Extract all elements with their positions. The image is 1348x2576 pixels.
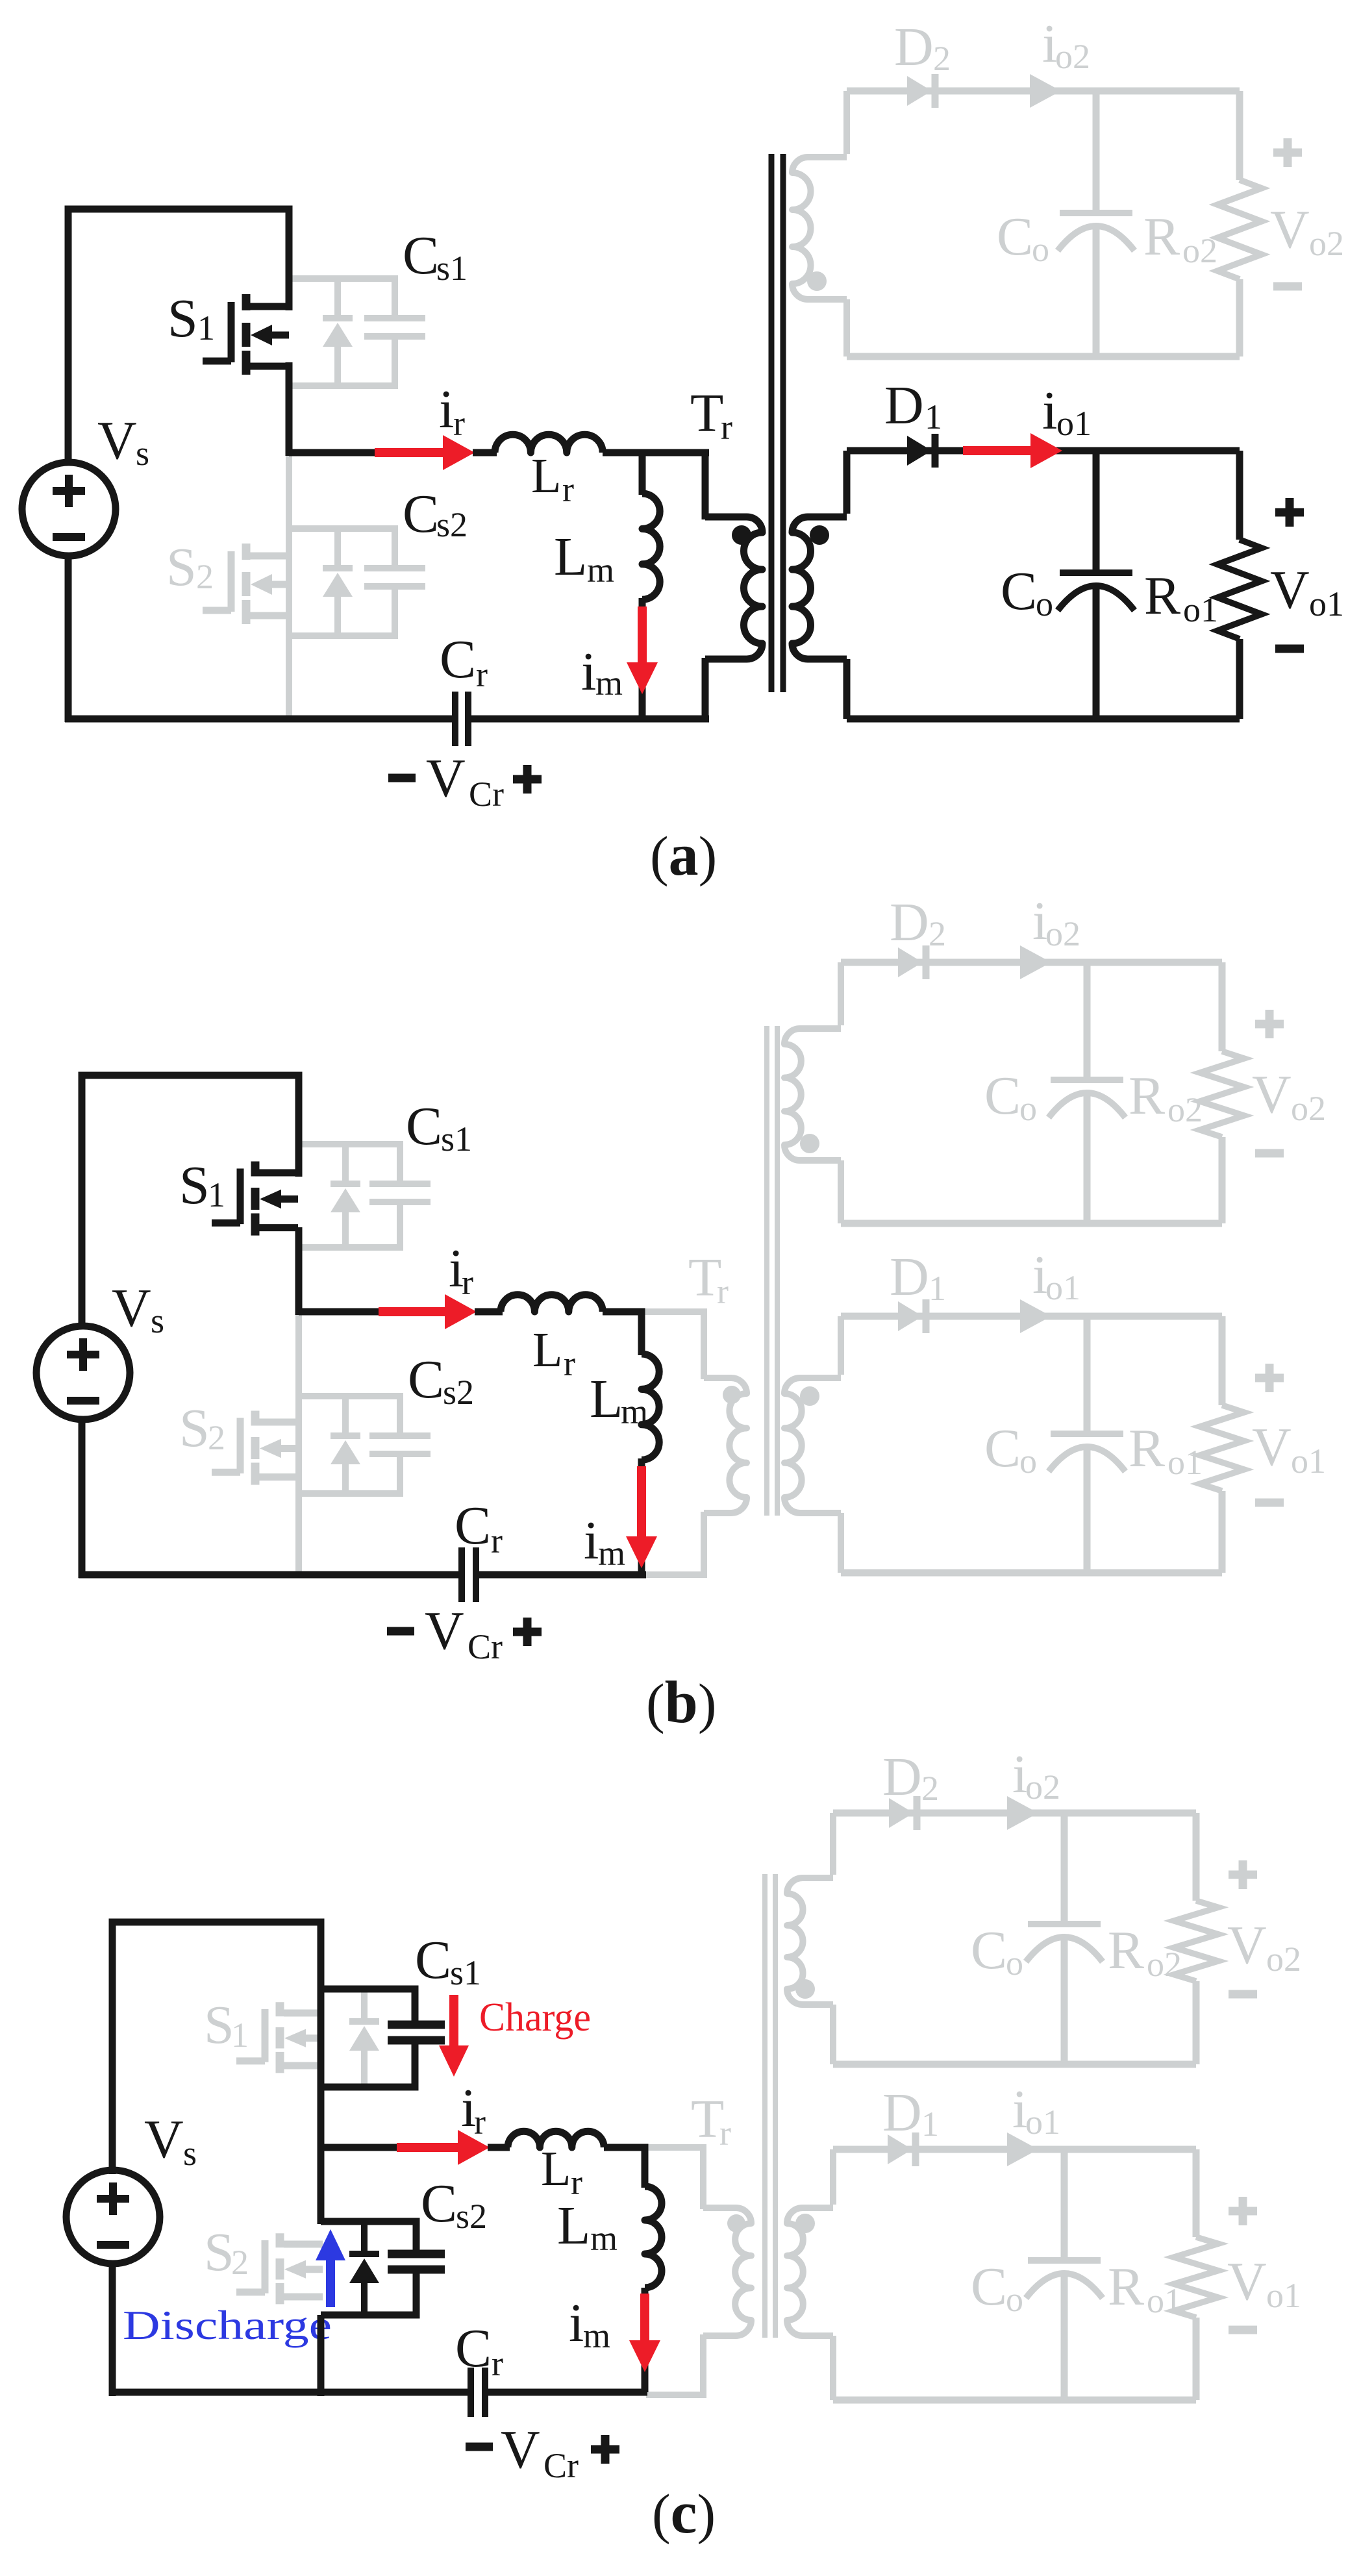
svg-text:o2: o2 — [1167, 1090, 1203, 1129]
svg-text:S: S — [179, 1155, 210, 1216]
snubber block wires — [299, 1141, 400, 1147]
svg-text:C: C — [406, 1096, 442, 1157]
svg-text:2: 2 — [208, 1418, 225, 1457]
svg-text:i: i — [1042, 381, 1057, 441]
svg-text:i: i — [581, 642, 596, 702]
svg-text:o1: o1 — [1266, 2276, 1301, 2315]
svg-text:i: i — [569, 2293, 584, 2353]
svg-text:V: V — [97, 410, 137, 471]
wire Lr to primary — [603, 449, 709, 456]
wire primary top lead — [702, 449, 709, 519]
svg-text:r: r — [453, 404, 465, 443]
svg-text:Discharge: Discharge — [123, 2302, 332, 2348]
output capacitor Co — [1093, 91, 1100, 213]
svg-text:m: m — [590, 2219, 618, 2258]
diode — [888, 2134, 912, 2164]
svg-text:o1: o1 — [1045, 1268, 1080, 1307]
magnetizing current arrow im — [637, 1466, 646, 1538]
svg-text:m: m — [598, 1534, 625, 1573]
polarity marks — [1229, 2207, 1257, 2216]
output circuit wires — [847, 447, 1240, 455]
snubber block wires — [289, 275, 395, 282]
svg-text:(a): (a) — [650, 821, 717, 888]
svg-text:V: V — [1227, 2251, 1267, 2312]
snubber capacitor — [369, 1181, 431, 1187]
load resistor Ro — [1174, 1901, 1218, 1981]
svg-text:s2: s2 — [456, 2197, 487, 2236]
wire S1 source leg — [286, 362, 293, 456]
svg-text:1: 1 — [925, 397, 942, 436]
body diode S1 (inactive) — [361, 1989, 368, 2021]
winding dot — [795, 1979, 815, 1999]
diode — [907, 436, 932, 466]
svg-text:L: L — [532, 1323, 562, 1377]
svg-text:r: r — [491, 1521, 503, 1560]
magnetizing inductor Lm — [642, 494, 660, 599]
wire Vs to rail — [109, 2264, 116, 2396]
svg-text:o2: o2 — [1291, 1089, 1326, 1128]
body diode — [342, 1396, 349, 1436]
svg-text:Cr: Cr — [543, 2446, 579, 2485]
svg-text:D: D — [894, 17, 934, 77]
svg-text:V: V — [501, 2420, 540, 2480]
label VCr — [387, 1627, 414, 1636]
resonant capacitor Cr — [452, 692, 458, 746]
load resistor Ro — [1217, 180, 1262, 279]
polarity marks — [1255, 1374, 1284, 1382]
discharge arrow — [326, 2259, 335, 2307]
svg-text:o2: o2 — [1055, 37, 1090, 76]
transformer primary winding — [705, 517, 762, 659]
secondary winding — [843, 451, 851, 514]
label VCr — [388, 774, 416, 782]
svg-text:S: S — [168, 288, 198, 349]
voltage source Vs — [22, 462, 116, 556]
resonant capacitor Cr — [458, 1547, 465, 1602]
resonant current arrow ir — [397, 2143, 459, 2152]
output capacitor Co — [1061, 2149, 1068, 2260]
svg-text:o2: o2 — [1182, 231, 1217, 270]
output current arrow io — [1020, 1299, 1051, 1333]
svg-text:C: C — [997, 206, 1033, 267]
svg-text:s: s — [151, 1301, 164, 1340]
diode — [907, 76, 932, 106]
switch S1 — [251, 1162, 260, 1177]
wire bottom rail left — [79, 1571, 458, 1579]
polarity marks — [1273, 149, 1302, 157]
resonant current arrow ir — [375, 448, 444, 457]
voltage source Vs — [36, 1326, 130, 1419]
svg-text:o: o — [1006, 1944, 1023, 1982]
svg-text:Cr: Cr — [469, 775, 504, 814]
svg-text:s2: s2 — [436, 505, 468, 544]
svg-text:L: L — [557, 2195, 590, 2256]
svg-text:o1: o1 — [1147, 2281, 1182, 2320]
output circuit wires — [841, 959, 1222, 966]
svg-text:o2: o2 — [1147, 1945, 1182, 1984]
svg-text:C: C — [455, 2318, 492, 2379]
svg-text:o1: o1 — [1291, 1442, 1326, 1481]
transformer primary winding (inactive) — [703, 2208, 751, 2336]
wire Vs to rail — [79, 1419, 86, 1578]
wire to Lr — [321, 2144, 402, 2151]
svg-text:R: R — [1108, 1920, 1144, 1981]
svg-text:r: r — [474, 2103, 486, 2142]
wire input loop top — [68, 209, 289, 461]
output circuit wires — [847, 88, 1240, 95]
wire S2 leg (inactive) — [286, 453, 292, 719]
svg-text:C: C — [971, 2257, 1007, 2317]
svg-text:R: R — [1129, 1066, 1165, 1126]
svg-text:T: T — [690, 383, 723, 444]
svg-text:D: D — [882, 2082, 922, 2143]
output current arrow io — [1030, 74, 1061, 108]
wire input loop top — [82, 1075, 299, 1329]
svg-text:m: m — [621, 1392, 648, 1431]
svg-text:(b): (b) — [646, 1669, 716, 1735]
svg-text:(c): (c) — [652, 2479, 716, 2545]
secondary winding — [838, 1316, 844, 1375]
svg-text:o1: o1 — [1309, 584, 1344, 623]
resonant inductor Lr — [501, 1295, 603, 1312]
load resistor Ro — [1200, 1051, 1244, 1137]
snubber capacitor — [364, 315, 425, 321]
voltage source Vs — [66, 2170, 160, 2264]
svg-text:C: C — [408, 1349, 444, 1410]
polarity marks — [1229, 1871, 1257, 1879]
transformer core (inactive) — [762, 1874, 768, 2338]
svg-text:S: S — [179, 1398, 210, 1458]
output capacitor Co — [1084, 1316, 1091, 1434]
wire primary top lead (inactive) — [643, 1312, 704, 1379]
svg-text:1: 1 — [929, 1269, 946, 1308]
svg-text:R: R — [1143, 206, 1180, 267]
svg-text:r: r — [721, 408, 732, 447]
snubber block wires — [299, 1393, 400, 1399]
output current arrow io — [1007, 1796, 1038, 1830]
output circuit wires — [833, 1810, 1196, 1817]
wire Lm to rail — [642, 2288, 649, 2392]
wire bottom rail right — [488, 2389, 647, 2396]
svg-text:1: 1 — [197, 308, 215, 347]
switch S1 (inactive) — [276, 2002, 284, 2016]
wire arrow to Lr — [473, 449, 497, 456]
svg-text:L: L — [531, 449, 561, 503]
svg-text:V: V — [425, 1601, 464, 1661]
magnetizing current arrow im — [638, 606, 647, 664]
magnetizing current arrow im — [640, 2294, 649, 2342]
svg-text:C: C — [403, 484, 439, 544]
snubber Cs2 block (active) — [321, 2221, 416, 2254]
wire S1 source to Lr — [299, 1308, 384, 1316]
wire primary top lead (inactive) — [645, 2147, 703, 2209]
svg-text:o2: o2 — [1266, 1940, 1301, 1979]
svg-text:i: i — [439, 379, 454, 440]
svg-text:r: r — [564, 1344, 575, 1383]
wire junction to Cs2 — [318, 2147, 325, 2224]
load resistor Ro — [1200, 1405, 1244, 1491]
svg-text:i: i — [584, 1510, 599, 1571]
svg-text:S: S — [204, 1995, 234, 2055]
svg-text:r: r — [719, 2114, 731, 2153]
svg-text:s1: s1 — [436, 249, 468, 288]
svg-text:1: 1 — [208, 1175, 225, 1214]
wire arrow to Lr — [475, 1308, 503, 1316]
svg-text:o1: o1 — [1025, 2103, 1060, 2142]
svg-text:V: V — [1270, 560, 1310, 620]
svg-text:o1: o1 — [1183, 590, 1218, 629]
svg-text:o2: o2 — [1045, 914, 1080, 953]
svg-text:L: L — [554, 527, 587, 587]
transformer core (inactive) — [764, 1026, 769, 1516]
snubber block wires — [289, 525, 395, 532]
svg-text:C: C — [984, 1418, 1021, 1479]
svg-text:C: C — [455, 1495, 491, 1556]
output capacitor Co — [1061, 1813, 1068, 1924]
primary winding dot — [732, 525, 751, 545]
svg-text:V: V — [1252, 1417, 1292, 1477]
svg-text:V: V — [112, 1278, 151, 1338]
diode — [898, 1301, 923, 1331]
svg-text:C: C — [440, 629, 476, 690]
svg-text:R: R — [1108, 2257, 1144, 2317]
wire bottom rail right — [479, 1571, 646, 1579]
svg-text:V: V — [1227, 1915, 1267, 1975]
switch S2 (inactive) — [242, 544, 251, 560]
svg-text:o2: o2 — [1025, 1768, 1060, 1807]
wire S1 leg middle — [318, 1989, 325, 2151]
wire S2 leg (inactive) — [295, 1312, 302, 1575]
output capacitor Co — [1093, 451, 1100, 573]
polarity marks — [1255, 1020, 1284, 1029]
secondary winding — [830, 2149, 836, 2205]
svg-text:r: r — [492, 2344, 503, 2383]
svg-text:C: C — [421, 2173, 457, 2234]
switch S2 (inactive) — [276, 2233, 284, 2247]
svg-text:o2: o2 — [1309, 224, 1344, 263]
svg-text:r: r — [717, 1272, 729, 1311]
svg-text:s1: s1 — [441, 1119, 472, 1158]
svg-text:s: s — [183, 2134, 197, 2173]
svg-text:C: C — [971, 1920, 1007, 1981]
output current arrow io — [1020, 945, 1051, 979]
svg-text:C: C — [403, 225, 439, 286]
snubber capacitor — [369, 1432, 431, 1439]
svg-text:m: m — [595, 664, 623, 703]
magnetizing inductor Lm — [642, 1354, 659, 1460]
winding dot — [800, 1134, 819, 1153]
wire Lr to corner — [604, 2147, 645, 2188]
snubber Cs1 block (active) — [321, 1989, 415, 2025]
wire Lr to corner — [603, 1312, 642, 1355]
output circuit wires — [841, 1313, 1222, 1320]
svg-text:S: S — [166, 537, 197, 597]
svg-text:Charge: Charge — [479, 1995, 591, 2040]
body diode S2 (active) — [361, 2221, 368, 2254]
primary winding dot (inactive) — [723, 1386, 741, 1404]
label VCr — [466, 2443, 493, 2451]
svg-text:S: S — [204, 2222, 234, 2282]
svg-text:1: 1 — [921, 2105, 939, 2144]
svg-text:V: V — [1270, 199, 1310, 260]
wire arrow to Lr — [488, 2144, 510, 2151]
transformer core — [769, 154, 775, 692]
svg-text:V: V — [426, 748, 466, 808]
polarity marks — [1275, 508, 1304, 517]
svg-text:V: V — [144, 2109, 184, 2170]
svg-text:D: D — [890, 892, 929, 953]
wire input loop top — [112, 1922, 321, 2174]
output current arrow io — [1007, 2132, 1038, 2166]
switch S1 — [242, 294, 251, 310]
svg-text:2: 2 — [929, 914, 946, 953]
charge arrow — [449, 1995, 458, 2047]
switch S2 (inactive) — [251, 1411, 260, 1426]
winding dot — [795, 2214, 815, 2233]
wire primary bottom lead — [702, 658, 709, 719]
output current arrow io (red) — [963, 446, 1032, 455]
secondary winding — [838, 962, 844, 1025]
output circuit wires — [833, 2146, 1196, 2153]
svg-text:D: D — [882, 1747, 922, 1807]
svg-text:s2: s2 — [443, 1373, 474, 1412]
wire Lm to rail — [638, 1458, 645, 1575]
svg-text:m: m — [587, 551, 614, 590]
wire bottom rail right — [471, 716, 709, 723]
svg-text:o1: o1 — [1056, 404, 1092, 443]
svg-text:r: r — [462, 1263, 473, 1302]
resonant inductor Lr — [495, 434, 603, 453]
svg-text:C: C — [1001, 561, 1037, 621]
primary winding dot (inactive) — [727, 2214, 745, 2232]
secondary winding — [830, 1813, 836, 1875]
svg-text:Cr: Cr — [468, 1627, 503, 1666]
snubber capacitor — [364, 565, 425, 571]
svg-text:o: o — [1019, 1442, 1037, 1481]
body diode — [334, 529, 341, 568]
svg-text:2: 2 — [921, 1769, 939, 1808]
wire Lm to rail — [639, 598, 646, 719]
svg-text:r: r — [476, 655, 488, 694]
load resistor Ro — [1174, 2237, 1218, 2318]
svg-text:o: o — [1006, 2280, 1023, 2319]
wire S1 source leg — [295, 1227, 303, 1315]
svg-text:D: D — [890, 1247, 929, 1307]
svg-text:s1: s1 — [450, 1953, 481, 1992]
output capacitor Co — [1084, 962, 1091, 1080]
magnetizing inductor Lm — [645, 2186, 662, 2288]
svg-text:o1: o1 — [1167, 1443, 1203, 1482]
svg-text:R: R — [1144, 566, 1180, 626]
svg-text:o: o — [1019, 1089, 1037, 1128]
resonant capacitor Cr — [468, 2368, 474, 2417]
winding dot — [807, 271, 827, 291]
transformer primary winding (inactive) — [704, 1378, 747, 1513]
wire Cs2 to rail — [318, 2315, 325, 2396]
svg-text:2: 2 — [231, 2243, 249, 2282]
resonant current arrow ir — [379, 1307, 446, 1316]
wire bottom rail left — [109, 2389, 468, 2396]
load resistor Ro — [1217, 540, 1262, 639]
svg-text:m: m — [583, 2316, 610, 2355]
svg-text:2: 2 — [196, 557, 214, 596]
winding dot — [800, 1386, 819, 1406]
secondary winding — [843, 91, 850, 154]
resonant inductor Lr — [508, 2131, 604, 2147]
diode — [889, 1798, 914, 1828]
wire bottom rail left — [65, 716, 452, 723]
svg-text:C: C — [984, 1066, 1021, 1126]
wire Vs to ground rail — [65, 556, 72, 722]
winding dot — [810, 525, 829, 545]
wire primary bottom lead (inactive) — [644, 1512, 704, 1575]
svg-text:R: R — [1129, 1418, 1165, 1479]
wire Lm branch — [639, 453, 646, 495]
wire S1 source to Lr — [289, 449, 380, 456]
svg-text:L: L — [590, 1369, 623, 1429]
svg-text:s: s — [136, 434, 149, 473]
wire primary bottom lead (inactive) — [646, 2334, 703, 2395]
svg-text:L: L — [541, 2142, 571, 2196]
svg-text:o: o — [1032, 230, 1049, 269]
svg-text:V: V — [1252, 1064, 1292, 1125]
svg-text:o: o — [1036, 584, 1053, 623]
svg-text:D: D — [884, 375, 924, 436]
diode — [898, 947, 923, 977]
body diode — [342, 1144, 349, 1184]
svg-text:2: 2 — [933, 39, 951, 78]
svg-text:r: r — [562, 470, 574, 509]
svg-text:C: C — [415, 1930, 451, 1990]
svg-text:1: 1 — [231, 2016, 249, 2055]
body diode — [334, 279, 341, 318]
